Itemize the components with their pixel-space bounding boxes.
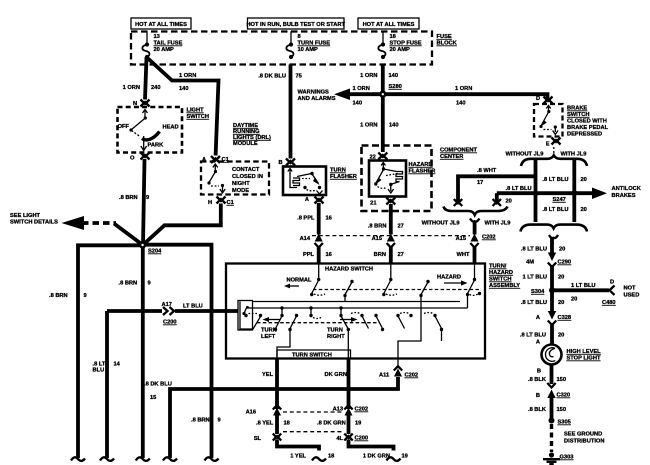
svg-text:LEFT: LEFT [261,334,276,340]
svg-text:27: 27 [398,224,404,230]
svg-text:75: 75 [296,74,302,80]
svg-text:.8 BRN: .8 BRN [49,293,68,299]
svg-text:1 LT BLU: 1 LT BLU [571,283,596,289]
svg-text:S280: S280 [389,84,402,90]
svg-text:.8 YEL: .8 YEL [256,421,274,427]
.8 LT BLU 20 below S247 [542,207,586,213]
wire 1 DK GRN 19 off page [349,440,408,461]
svg-text:20: 20 [506,199,512,205]
svg-text:140: 140 [353,101,363,107]
splice S247 and antilock brakes arrow [497,186,642,203]
svg-text:1 DK GRN: 1 DK GRN [363,454,390,460]
see light switch details arrow [10,213,143,245]
svg-text:ANTILOCK: ANTILOCK [612,186,642,192]
wire 1 YEL 18 off page [277,440,334,461]
svg-text:HOT AT ALL TIMES: HOT AT ALL TIMES [363,22,415,28]
svg-text:17: 17 [477,180,483,186]
svg-text:240: 240 [151,85,161,91]
svg-text:FUSE: FUSE [437,34,452,40]
svg-text:.8 LT BLU: .8 LT BLU [520,333,546,339]
svg-text:S305: S305 [558,420,571,426]
svg-text:.8 BLK: .8 BLK [528,407,547,413]
svg-text:C202: C202 [355,407,369,413]
fuse block dashed box [131,32,432,65]
svg-text:SEE GROUND: SEE GROUND [564,432,602,438]
svg-text:150: 150 [557,377,567,383]
option merge brace (right, to C290 chain) [521,225,588,232]
svg-text:SWITCH: SWITCH [489,277,511,283]
wire S304 to C480 not used 1 LT BLU 20 [552,280,639,307]
svg-text:HOT IN RUN, BULB TEST OR START: HOT IN RUN, BULB TEST OR START [246,22,345,28]
wire S280 down to hazard flasher 1 ORN 140 [360,94,398,152]
svg-text:CONTACT: CONTACT [232,167,260,173]
wire .8 DK GRN 19 [317,414,361,434]
terminal O [130,153,150,162]
svg-text:TURN SWITCH: TURN SWITCH [292,353,332,359]
svg-text:C480: C480 [602,300,616,306]
svg-text:TURN: TURN [327,328,343,334]
svg-text:140: 140 [389,123,399,129]
svg-text:1 LT BLU: 1 LT BLU [522,275,547,281]
hazard switch contacts [310,264,481,309]
svg-text:SEE LIGHT: SEE LIGHT [10,213,41,219]
svg-text:PARK: PARK [148,143,165,149]
fuse 13 TAIL FUSE 20 AMP [142,32,182,60]
svg-text:.8 DK BLU: .8 DK BLU [258,74,286,80]
svg-text:1 ORN: 1 ORN [123,85,140,91]
svg-text:140: 140 [389,73,399,79]
svg-text:G303: G303 [560,455,574,461]
svg-text:OFF: OFF [118,124,130,130]
svg-text:19: 19 [355,421,361,427]
svg-text:1 ORN: 1 ORN [360,123,377,129]
wire S304 down .8 LT BLU 20 [521,290,564,311]
svg-text:18: 18 [390,34,396,40]
DRL module label [233,123,271,147]
turn switch contacts right cluster [396,308,443,359]
internal bus wires [253,301,461,303]
svg-text:.8 BRN: .8 BRN [368,224,387,230]
svg-text:LIGHT: LIGHT [187,108,205,114]
wire merge to A15 [470,219,479,235]
wire DK GRN output [325,359,349,410]
hazard flasher U2 box [369,161,406,197]
svg-text:19: 19 [402,454,408,460]
svg-text:MODE: MODE [232,188,249,194]
dashed ground wire see ground distribution [552,424,605,452]
svg-text:16: 16 [326,252,332,258]
splice S304 [531,287,555,295]
terminal A15 WHT at C202 [456,234,496,264]
svg-text:NOT: NOT [624,286,637,292]
warnings and alarms arrow [298,86,383,107]
turn left arrow and label [261,317,280,340]
connector C202 dashed line [312,235,470,237]
svg-text:27: 27 [398,252,404,258]
svg-text:DISTRIBUTION: DISTRIBUTION [564,439,604,445]
svg-text:STOP LIGHT: STOP LIGHT [567,356,601,362]
wire S204 down branch .8 BRN 9 [119,245,151,452]
terminal A11 C202 [379,359,418,379]
wire LT BLU entry into assembly [226,309,238,313]
svg-text:10 AMP: 10 AMP [298,47,319,53]
svg-text:TURN FUSE: TURN FUSE [298,41,331,47]
svg-text:S247: S247 [553,197,566,203]
wire .8 WHT 17 [454,168,536,206]
svg-text:TAIL FUSE: TAIL FUSE [154,41,183,47]
svg-text:D: D [536,96,540,102]
DRL contact dashed box [201,162,269,195]
svg-text:BRAKES: BRAKES [612,193,636,199]
connector row C200 bottom dashed [283,431,343,433]
svg-text:13: 13 [154,34,160,40]
svg-text:A: A [305,197,309,203]
light switch contacts OFF HEAD PARK [118,110,179,151]
svg-text:1 ORN: 1 ORN [179,73,196,79]
svg-text:.8 BRN: .8 BRN [191,418,210,424]
svg-text:1 ORN: 1 ORN [353,86,370,92]
svg-text:1 ORN: 1 ORN [455,86,472,92]
svg-text:.8 BRN: .8 BRN [119,281,138,287]
turn switch contacts middle cluster [339,306,384,358]
turn flasher U1 box [283,167,326,196]
svg-text:B: B [536,393,540,399]
svg-text:BLOCK: BLOCK [437,41,458,47]
svg-text:21: 21 [370,201,376,207]
svg-text:9: 9 [148,281,151,287]
svg-text:NIGHT: NIGHT [232,181,250,187]
svg-text:18: 18 [284,421,290,427]
DRL contact switch [207,164,225,193]
hazard arrow [437,275,468,286]
fuse block label [437,34,458,47]
svg-text:BRN: BRN [374,252,386,258]
svg-text:A14: A14 [300,236,311,242]
svg-text:20: 20 [558,300,564,306]
off page hooks for left wires [71,452,219,461]
hazard flasher internals [374,163,402,194]
wire light switch O to S204, .8 BRN 9 [119,159,149,245]
svg-text:.8 DK GRN: .8 DK GRN [317,421,346,427]
svg-text:E: E [546,142,550,148]
brake switch dashed box [534,104,563,137]
svg-text:ASSEMBLY: ASSEMBLY [489,283,520,289]
wire YEL output [262,359,277,410]
wire turn fuse to turn flasher .8 DK BLU 75 [258,65,302,159]
svg-text:HAZARD: HAZARD [409,162,433,168]
svg-text:20 AMP: 20 AMP [154,47,175,53]
svg-text:.8 LT BLU: .8 LT BLU [521,247,547,253]
svg-text:.8 PPL: .8 PPL [297,216,315,222]
svg-text:140: 140 [179,86,189,92]
terminal A13 C202 [333,405,369,415]
svg-text:.8 LT BLU: .8 LT BLU [542,177,568,183]
contact closed in night mode label [232,167,263,194]
svg-text:C1: C1 [227,200,234,206]
terminal D brake switch [536,96,553,104]
svg-text:DEPRESSED: DEPRESSED [567,132,602,138]
svg-text:PPL: PPL [303,252,315,258]
label box HOT AT ALL TIMES (right) [358,18,419,29]
terminal B turn flasher [279,159,296,167]
svg-text:A16: A16 [246,410,256,416]
wire .8 YEL 18 [256,414,290,434]
svg-text:9: 9 [146,195,149,201]
svg-text:1 YEL: 1 YEL [290,454,306,460]
wire A17 LT BLU to turn switch [93,302,227,452]
light switch dashed box [118,107,183,153]
terminal A15 BRN at C202 [372,234,404,264]
svg-text:A: A [536,315,540,321]
svg-text:18: 18 [328,454,334,460]
turn lever small box [238,301,253,331]
svg-text:TURN: TURN [261,328,277,334]
svg-text:H: H [208,200,212,206]
svg-text:S204: S204 [148,249,162,255]
svg-text:SWITCH: SWITCH [567,112,589,118]
svg-text:STOP FUSE: STOP FUSE [390,41,422,47]
hazard switch dashed row [313,289,481,291]
svg-text:9: 9 [84,293,87,299]
label box HOT IN RUN, BULB TEST OR START [246,18,345,29]
svg-text:C328: C328 [558,315,572,321]
turn flasher internals [288,169,323,195]
option merge brace (left, to A15 WHT) [444,207,508,215]
svg-text:C200: C200 [355,436,369,442]
svg-text:CLOSED IN: CLOSED IN [232,174,263,180]
terminal A C1 [202,156,229,163]
connector B C320 [536,383,570,399]
svg-text:C320: C320 [557,393,571,399]
svg-text:CENTER: CENTER [440,154,463,160]
svg-text:20: 20 [558,333,564,339]
turn switch notch box [277,350,351,359]
option split brace (top) [521,155,587,166]
wire C328 to lamp .8 LT BLU 20 [520,324,564,346]
wire stop fuse to S280 1 ORN 140 [360,65,398,95]
wire with JL9 branch .8 LT BLU 20 [542,160,586,222]
svg-text:HAZARD: HAZARD [437,275,461,281]
svg-text:150: 150 [557,407,567,413]
svg-text:.8 DK BLU: .8 DK BLU [144,382,172,388]
svg-text:TURN/: TURN/ [489,264,507,270]
svg-text:4L: 4L [336,436,343,442]
wire S204 left branch .8 BRN 9 [49,245,143,452]
svg-text:BRAKE: BRAKE [567,106,587,112]
terminal A14 at C202 [300,234,332,264]
svg-text:FLASHER: FLASHER [330,174,357,180]
svg-text:WITHOUT JL9: WITHOUT JL9 [422,221,460,227]
svg-text:O: O [130,156,135,162]
wire S280 right to brake switch 1 ORN 140 [383,86,548,107]
svg-text:WITH JL9: WITH JL9 [485,221,511,227]
svg-text:DK GRN: DK GRN [325,372,347,378]
wire tail fuse to light switch N, 1 ORN 240 [123,57,161,100]
terminal 21 hazard flasher wire .8 BRN 27 [368,198,404,235]
splice S305 [549,418,571,426]
svg-text:C202: C202 [405,373,419,379]
svg-text:C202: C202 [482,235,496,241]
svg-text:HIGH LEVEL: HIGH LEVEL [567,349,602,355]
svg-text:WHT: WHT [457,252,470,258]
svg-text:COMPONENT: COMPONENT [440,148,477,154]
svg-text:9: 9 [218,418,221,424]
svg-text:A13: A13 [333,407,343,413]
svg-text:C290: C290 [558,260,572,266]
terminal 4L C200 [336,434,368,443]
svg-text:16: 16 [326,216,332,222]
svg-text:.8 LT BLU: .8 LT BLU [506,186,532,192]
svg-text:USED: USED [624,293,640,299]
brake switch contacts [539,106,558,135]
ground G303 [543,452,573,464]
wire H to S204 [143,204,221,246]
svg-text:8: 8 [298,34,301,40]
svg-text:4M: 4M [526,260,534,266]
connector row C202 bottom dashed [283,411,343,413]
wire brace to C290 .8 LT BLU 20 [521,235,565,254]
svg-text:B: B [279,160,283,166]
svg-text:HEAD: HEAD [163,125,179,131]
svg-text:NORMAL: NORMAL [287,278,312,284]
wire C320 to S305 .8 BLK 150 [528,397,566,419]
brake switch label [567,106,609,138]
terminal H C1 [208,197,234,207]
svg-text:BLU: BLU [93,368,105,374]
svg-text:20: 20 [559,247,565,253]
svg-text:SL: SL [254,436,262,442]
turn/hazard switch assembly box [226,264,485,359]
splice ring S204 overlay [139,241,146,248]
terminal SL [254,434,281,443]
wire without JL9 branch [534,160,538,222]
svg-text:A17: A17 [162,302,172,308]
connector 4M C290 [526,253,571,268]
terminal N [133,100,150,108]
svg-text:BRAKE PEDAL: BRAKE PEDAL [567,125,609,131]
svg-text:15: 15 [150,395,156,401]
svg-text:SWITCH: SWITCH [187,114,209,120]
svg-text:B: B [537,369,541,375]
svg-text:RIGHT: RIGHT [327,334,345,340]
svg-text:20 AMP: 20 AMP [390,47,411,53]
svg-text:HAZARD: HAZARD [489,270,513,276]
component center dashed box (hazard flasher) [362,146,432,212]
svg-text:20: 20 [581,207,587,213]
turn switch contacts left cluster [240,302,321,359]
label box HOT AT ALL TIMES (left) [131,18,191,29]
without JL9 / with JL9 labels (top) [506,152,587,158]
splice S204 [139,242,162,255]
without/with JL9 labels (left merge) [422,221,511,227]
normal arrow [284,278,312,289]
terminal A turn flasher wire .8 PPL 16 [297,197,332,235]
svg-text:TURN: TURN [330,168,346,174]
svg-text:A11: A11 [379,373,389,379]
wire .8 LT BLU 20 left from S247 [493,186,532,206]
high level stop light lamp [542,345,602,365]
wire .8 DK BLU 15 from A11 [144,377,398,452]
svg-text:1 ORN: 1 ORN [360,73,377,79]
terminal A16 [246,405,282,415]
terminal 22 hazard flasher [370,153,388,161]
svg-text:A: A [536,340,540,346]
connector A C328 [536,311,571,325]
svg-text:D: D [610,280,614,286]
svg-text:.8 BRN: .8 BRN [119,195,138,201]
svg-text:FLASHER: FLASHER [409,169,436,175]
wire branch 1 ORN 140 from tail fuse to DRL contact A [148,59,219,156]
svg-text:S304: S304 [531,289,545,295]
svg-text:A15: A15 [372,236,382,242]
wire C290 to S304 1 LT BLU 20 [522,266,564,288]
svg-text:YEL: YEL [262,372,274,378]
svg-text:HAZARD SWITCH: HAZARD SWITCH [325,267,373,273]
svg-text:SWITCH DETAILS: SWITCH DETAILS [10,220,58,226]
svg-text:WITHOUT JL9: WITHOUT JL9 [506,152,544,158]
svg-text:A15: A15 [456,236,466,242]
svg-text:20: 20 [581,177,587,183]
turn switch dashed row [257,322,380,324]
fuse 8 TURN FUSE 10 AMP [286,32,330,60]
wire lamp B down .8 BLK 150 [528,365,566,385]
svg-text:HOT AT ALL TIMES: HOT AT ALL TIMES [135,22,187,28]
svg-text:.8 BLK: .8 BLK [528,377,547,383]
svg-text:MODULE: MODULE [233,141,258,147]
svg-text:C200: C200 [163,320,177,326]
light switch label [187,108,209,121]
svg-text:.8 WHT: .8 WHT [477,168,497,174]
svg-text:WARNINGS: WARNINGS [298,90,329,96]
svg-text:.8 LT BLU: .8 LT BLU [542,207,568,213]
turn right arrow and label [327,317,358,340]
svg-text:14: 14 [114,362,121,368]
splice S280 [379,84,401,98]
splice ring S280 overlay [379,91,386,98]
svg-text:.8 LT BLU: .8 LT BLU [521,300,547,306]
svg-text:WITH JL9: WITH JL9 [561,152,587,158]
terminal E [546,138,561,156]
svg-text:20: 20 [571,297,577,303]
wire S204 right branch .8 BRN 9 [143,245,221,452]
svg-text:AND ALARMS: AND ALARMS [298,96,336,102]
fuse 18 STOP FUSE 20 AMP [378,32,421,60]
svg-text:140: 140 [456,101,466,107]
svg-text:CLOSED WITH: CLOSED WITH [567,119,607,125]
svg-text:LT BLU: LT BLU [183,304,203,310]
svg-text:20: 20 [558,275,564,281]
